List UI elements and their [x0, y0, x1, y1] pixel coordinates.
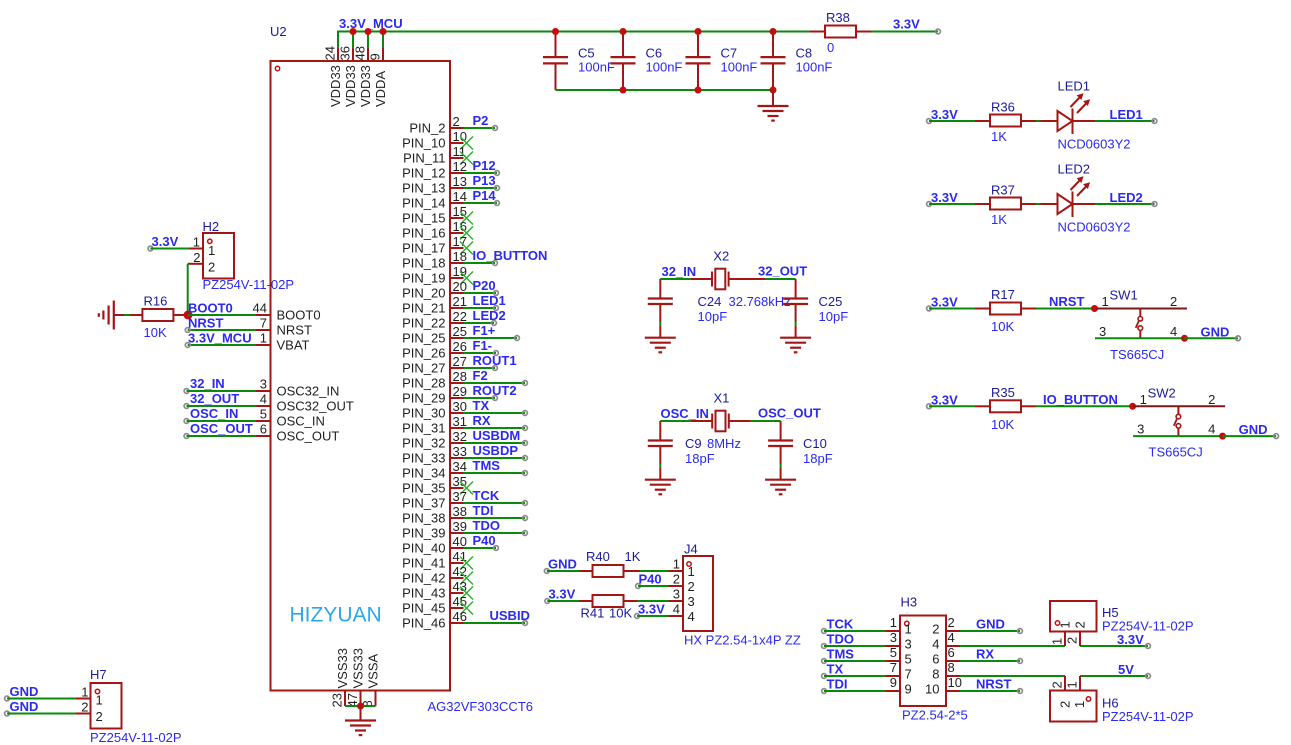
svg-text:PIN_22: PIN_22 [402, 316, 445, 331]
U2 top pin 9 VDDA [368, 31, 389, 108]
net label LED2 at U2 pin 22 [473, 308, 506, 323]
svg-text:1K: 1K [625, 549, 641, 564]
J4 pin 4 [669, 602, 684, 617]
U2 right pin 46 PIN_46 [402, 609, 467, 631]
svg-text:2: 2 [932, 622, 939, 637]
designator J4 [684, 542, 698, 557]
svg-text:VDD33: VDD33 [343, 65, 358, 107]
svg-text:TCK: TCK [473, 488, 500, 503]
wire GND to H7 pin 2 [5, 711, 76, 716]
svg-text:6: 6 [260, 422, 267, 437]
LED LED2 NCD0603Y2 [1058, 176, 1096, 217]
wire GND to H7 pin 1 [5, 696, 76, 701]
value 8MHz for X1 [707, 436, 741, 451]
svg-text:18pF: 18pF [685, 451, 715, 466]
no-connect X at U2 pin 42 [460, 572, 473, 585]
svg-text:22: 22 [453, 309, 467, 324]
svg-text:1: 1 [260, 331, 267, 346]
U2 bottom pin 23 VSS33 [330, 648, 351, 707]
svg-text:R35: R35 [991, 385, 1015, 400]
svg-text:PZ254V-11-02P: PZ254V-11-02P [203, 277, 295, 292]
svg-text:10: 10 [925, 682, 939, 697]
H5 pin 1 [1050, 632, 1066, 647]
junction dots top rail at capacitors [552, 28, 777, 35]
svg-text:32: 32 [453, 429, 467, 444]
svg-text:PIN_45: PIN_45 [402, 601, 445, 616]
net label IO_BUTTON [1043, 392, 1118, 407]
wire TMS to H3 pin 5 [822, 659, 886, 664]
svg-text:PZ2.54-2*5: PZ2.54-2*5 [902, 708, 968, 723]
net label P2 at U2 pin 2 [473, 113, 489, 128]
net label TCK [827, 617, 854, 632]
wire USBDM from U2 pin 32 [464, 441, 528, 446]
svg-text:2: 2 [208, 260, 215, 275]
svg-text:TS665CJ: TS665CJ [1110, 347, 1164, 362]
svg-text:38: 38 [453, 504, 467, 519]
wire 3.3V to J4 pin 4 [635, 614, 669, 619]
svg-text:HX PZ2.54-1x4P ZZ: HX PZ2.54-1x4P ZZ [684, 633, 801, 648]
svg-text:13: 13 [453, 174, 467, 189]
svg-text:10pF: 10pF [819, 309, 849, 324]
svg-text:PIN_33: PIN_33 [402, 451, 445, 466]
J4 pin 1 [669, 557, 684, 572]
svg-text:TDI: TDI [827, 677, 848, 692]
svg-text:5: 5 [890, 645, 897, 660]
svg-text:2: 2 [1170, 294, 1177, 309]
svg-text:2: 2 [1208, 392, 1215, 407]
wire OSC_OUT to U2 pin 6 [184, 434, 256, 439]
svg-text:LED1: LED1 [473, 293, 506, 308]
svg-text:2: 2 [1050, 681, 1065, 688]
value PZ2.54-2*5 [902, 708, 968, 723]
U2 right pin 42 PIN_42 [402, 564, 467, 586]
svg-text:NRST: NRST [277, 323, 312, 338]
capacitor C5 100nF [543, 32, 615, 91]
svg-text:30: 30 [453, 399, 467, 414]
U2 left pin 4 OSC32_OUT [256, 392, 354, 414]
wire H3 pin 8 to H6 pin 2 [960, 675, 1065, 677]
H2 pin 1 [190, 235, 204, 250]
svg-text:32_OUT: 32_OUT [190, 391, 239, 406]
svg-text:14: 14 [453, 189, 467, 204]
svg-text:PIN_46: PIN_46 [402, 616, 445, 631]
svg-text:ROUT1: ROUT1 [473, 353, 517, 368]
svg-text:USBDM: USBDM [473, 428, 521, 443]
svg-text:IO_BUTTON: IO_BUTTON [473, 248, 548, 263]
wire 3.3V to R17 [929, 308, 975, 310]
junction at SW2 pin 1 [1129, 403, 1136, 410]
value PZ254V-11-02P for H7 [90, 730, 182, 745]
U2 left pin 44 BOOT0 [253, 301, 321, 323]
svg-text:P40: P40 [473, 533, 496, 548]
U2 right pin 29 PIN_29 [402, 384, 467, 406]
capacitor C9 18pF [648, 421, 715, 480]
svg-text:GND: GND [10, 699, 39, 714]
net label 3.3V for R37 [927, 190, 958, 206]
net label TX [827, 662, 844, 677]
net label 32_IN [662, 264, 697, 279]
net label F1- at U2 pin 26 [473, 338, 493, 353]
wire R40 to J4 pin 1 [640, 570, 669, 572]
net label TDO at U2 pin 39 [473, 518, 500, 533]
H3 pin 6 [932, 645, 960, 667]
designator LED1 [1058, 79, 1091, 94]
no-connect X at U2 pin 45 [460, 602, 473, 615]
U2 left pin 6 OSC_OUT [256, 422, 339, 444]
svg-text:32_IN: 32_IN [190, 376, 225, 391]
svg-text:NCD0603Y2: NCD0603Y2 [1058, 137, 1131, 152]
svg-text:2: 2 [1058, 701, 1073, 708]
svg-text:31: 31 [453, 414, 467, 429]
svg-text:1: 1 [1050, 638, 1065, 645]
wire P12 from U2 pin 12 [464, 171, 500, 176]
capacitor C24 10pF [648, 279, 727, 338]
svg-text:7: 7 [905, 667, 912, 682]
value HX PZ2.54-1x4P ZZ [684, 633, 801, 648]
svg-text:3.3V: 3.3V [931, 190, 958, 205]
svg-text:PIN_40: PIN_40 [402, 541, 445, 556]
svg-text:R17: R17 [991, 287, 1015, 302]
header H3 PZ2.54-2*5 body [900, 616, 946, 707]
ground below C9 [645, 480, 676, 495]
net label 5V [1118, 662, 1134, 677]
svg-text:OSC_OUT: OSC_OUT [758, 406, 821, 421]
net label GND at R40 [544, 557, 576, 574]
svg-text:2: 2 [688, 579, 695, 594]
svg-text:23: 23 [330, 693, 345, 707]
svg-text:H3: H3 [901, 595, 918, 610]
wire NRST from H3 pin 10 [960, 689, 1022, 694]
svg-text:VBAT: VBAT [277, 338, 310, 353]
svg-text:3.3V: 3.3V [931, 392, 958, 407]
svg-text:C7: C7 [721, 46, 738, 61]
wire TDI from U2 pin 38 [464, 516, 528, 521]
svg-text:IO_BUTTON: IO_BUTTON [1043, 392, 1118, 407]
svg-text:9: 9 [905, 682, 912, 697]
wire GND to R40 [547, 570, 579, 572]
svg-text:VSS33: VSS33 [351, 648, 366, 688]
svg-text:PIN_42: PIN_42 [402, 571, 445, 586]
net label USBID at U2 pin 46 [490, 608, 530, 623]
U2 left pin 7 NRST [256, 316, 312, 338]
svg-text:VDD33: VDD33 [358, 65, 373, 107]
svg-text:F1-: F1- [473, 338, 493, 353]
svg-text:PIN_15: PIN_15 [402, 211, 445, 226]
designator H2 [203, 219, 220, 234]
svg-text:100nF: 100nF [578, 60, 615, 75]
crystal X1 [712, 411, 729, 432]
svg-text:SW2: SW2 [1148, 385, 1176, 400]
svg-text:C9: C9 [685, 436, 702, 451]
svg-text:2: 2 [673, 572, 680, 587]
H3 pin 4 [932, 630, 960, 652]
wire F1+ from U2 pin 25 [464, 336, 520, 341]
H2 pin 2 [188, 250, 203, 265]
svg-text:R16: R16 [144, 294, 168, 309]
svg-text:39: 39 [453, 519, 467, 534]
svg-text:27: 27 [453, 354, 467, 369]
net label P12 at U2 pin 12 [473, 158, 496, 173]
svg-text:4: 4 [1170, 324, 1177, 339]
svg-text:18: 18 [453, 249, 467, 264]
svg-text:HIZYUAN: HIZYUAN [290, 604, 382, 627]
junction dots on ground bus [620, 87, 777, 94]
svg-text:3: 3 [688, 594, 695, 609]
wire TCK to H3 pin 1 [822, 629, 886, 634]
MCU U2 body [271, 61, 451, 691]
net label 32_IN at U2 pin 3 [190, 376, 225, 391]
wire 32_IN [660, 278, 712, 280]
U2 right pin 28 PIN_28 [402, 369, 467, 391]
svg-text:PZ254V-11-02P: PZ254V-11-02P [1102, 709, 1194, 724]
net label P13 at U2 pin 13 [473, 173, 496, 188]
U2 right pin 45 PIN_45 [402, 594, 467, 616]
net label TDI [827, 677, 848, 692]
value NCD0603Y2 for LED1 [1058, 137, 1131, 152]
svg-text:5: 5 [260, 407, 267, 422]
designator H6 [1102, 696, 1119, 711]
net label NRST [1049, 294, 1084, 309]
svg-text:1: 1 [1065, 681, 1080, 688]
wire LED2 net [1095, 202, 1157, 207]
value PZ254V-11-02P for H5 [1102, 619, 1194, 634]
svg-text:8: 8 [932, 667, 939, 682]
header H6 PZ254V-11-02P body [1050, 691, 1097, 722]
svg-text:PIN_17: PIN_17 [402, 241, 445, 256]
resistor R17 10K [975, 287, 1036, 334]
resistor R36 1K [975, 100, 1036, 145]
svg-text:21: 21 [453, 294, 467, 309]
wire USBID from U2 pin 46 [464, 621, 528, 626]
net label TX at U2 pin 30 [473, 398, 490, 413]
net label OSC_OUT [758, 406, 821, 421]
svg-text:PIN_39: PIN_39 [402, 526, 445, 541]
svg-text:8: 8 [948, 660, 955, 675]
value PZ254V-11-02P for H6 [1102, 709, 1194, 724]
svg-text:VDD33: VDD33 [328, 65, 343, 107]
no-connect X at U2 pin 16 [460, 227, 473, 240]
junction at SW1 pin 1 [1091, 305, 1098, 312]
svg-text:2: 2 [1073, 621, 1088, 628]
wire 3.3V to H2 pin 1 [148, 246, 190, 251]
designator U2 [270, 24, 287, 39]
net label 32_OUT at U2 pin 4 [190, 391, 239, 406]
wire OSC_OUT [729, 420, 781, 422]
value TS665CJ for SW2 [1149, 445, 1203, 460]
svg-text:PIN_16: PIN_16 [402, 226, 445, 241]
svg-text:1K: 1K [991, 212, 1007, 227]
svg-text:R40: R40 [586, 549, 610, 564]
net label 3.3V_MCU at U2 pin 1 [188, 331, 252, 346]
junction at U2 ground node [357, 703, 364, 710]
svg-text:1: 1 [1140, 392, 1147, 407]
svg-text:GND: GND [1201, 324, 1230, 339]
net label LED2 [1110, 190, 1143, 205]
svg-text:10K: 10K [991, 417, 1014, 432]
wire LED1 net [1095, 119, 1157, 124]
H3 pin 9 [886, 675, 912, 697]
U2 bottom pin 8 VSSA [360, 653, 381, 707]
U2 right pin 35 PIN_35 [402, 474, 467, 496]
svg-text:LED2: LED2 [1110, 190, 1143, 205]
net label GND at SW2 [1239, 422, 1268, 437]
svg-text:3.3V: 3.3V [638, 602, 665, 617]
net label F2 at U2 pin 28 [473, 368, 488, 383]
H6 pin 2 [1050, 676, 1066, 691]
net label TDI at U2 pin 38 [473, 503, 494, 518]
U2 left pin 5 OSC_IN [256, 407, 325, 429]
svg-text:SW1: SW1 [1110, 288, 1138, 303]
svg-text:33: 33 [453, 444, 467, 459]
svg-text:H2: H2 [203, 219, 220, 234]
svg-text:OSC_IN: OSC_IN [190, 406, 238, 421]
svg-text:40: 40 [453, 534, 467, 549]
J4 pin 2 [669, 572, 684, 587]
resistor R38 0 ohm [810, 10, 871, 55]
svg-text:2: 2 [453, 114, 460, 129]
header H7 PZ254V-11-02P body [91, 683, 122, 729]
U2 right pin 33 PIN_33 [402, 444, 467, 466]
U2 left pin 3 OSC32_IN [256, 377, 339, 399]
svg-text:C25: C25 [819, 294, 843, 309]
net label GND at SW1 [1201, 324, 1230, 339]
resistor R35 10K [975, 385, 1036, 432]
wire P40 to J4 pin 2 [636, 584, 669, 589]
svg-text:32.768kHz: 32.768kHz [729, 294, 791, 309]
wire TDI to H3 pin 9 [822, 689, 886, 694]
resistor R16 10K [142, 294, 188, 341]
wire R17 to switch SW1 [1036, 308, 1095, 310]
capacitor C7 100nF [686, 32, 758, 91]
value 32.768kHz for X2 [729, 294, 791, 309]
svg-text:1: 1 [208, 243, 215, 258]
svg-text:TS665CJ: TS665CJ [1149, 445, 1203, 460]
junction BOOT0 node [184, 311, 193, 320]
H3 pin 2 [932, 615, 960, 637]
switch SW2 TS665CJ [1134, 392, 1226, 437]
net label ROUT2 at U2 pin 29 [473, 383, 517, 398]
svg-text:C5: C5 [578, 46, 595, 61]
svg-text:10K: 10K [609, 606, 632, 621]
net label P40 at U2 pin 40 [473, 533, 496, 548]
svg-text:3: 3 [260, 377, 267, 392]
U2 right pin 39 PIN_39 [402, 519, 467, 541]
net label OSC_IN at U2 pin 5 [190, 406, 238, 421]
wire TX from U2 pin 30 [464, 411, 528, 416]
svg-text:LED1: LED1 [1058, 79, 1091, 94]
capacitor C10 18pF [768, 421, 833, 480]
svg-text:1: 1 [1072, 701, 1087, 708]
svg-text:LED2: LED2 [1058, 162, 1091, 177]
svg-text:PZ254V-11-02P: PZ254V-11-02P [1102, 619, 1194, 634]
svg-text:1: 1 [890, 615, 897, 630]
svg-text:PIN_18: PIN_18 [402, 256, 445, 271]
svg-text:PIN_2: PIN_2 [409, 121, 445, 136]
wire joining U2 ground pins [345, 705, 376, 707]
wire P2 from U2 pin 2 [464, 126, 498, 131]
svg-text:11: 11 [453, 144, 467, 159]
svg-text:2: 2 [948, 615, 955, 630]
svg-text:LED1: LED1 [1110, 107, 1143, 122]
svg-text:VSSA: VSSA [366, 653, 381, 688]
wire OSC_IN [660, 420, 712, 422]
svg-text:PIN_19: PIN_19 [402, 271, 445, 286]
H3 pin 5 [886, 645, 912, 667]
svg-text:OSC32_IN: OSC32_IN [277, 384, 340, 399]
svg-text:F1+: F1+ [473, 323, 496, 338]
svg-text:12: 12 [453, 159, 467, 174]
wire 3.3V to R35 [929, 405, 975, 407]
svg-text:TDO: TDO [473, 518, 500, 533]
U2 right pin 27 PIN_27 [402, 354, 467, 376]
net label OSC_OUT at U2 pin 6 [190, 421, 253, 436]
svg-text:OSC_OUT: OSC_OUT [277, 429, 340, 444]
wire R37 to LED2 [1036, 203, 1058, 205]
svg-text:2: 2 [193, 250, 200, 265]
no-connect X at U2 pin 11 [460, 152, 473, 165]
svg-text:3: 3 [890, 630, 897, 645]
svg-text:1: 1 [193, 235, 200, 250]
wire 3.3V to R41 [547, 600, 579, 602]
ground below C10 [765, 480, 796, 495]
svg-text:BOOT0: BOOT0 [277, 308, 321, 323]
net label 32_OUT [758, 264, 807, 279]
svg-text:TMS: TMS [473, 458, 501, 473]
svg-text:3.3V: 3.3V [931, 107, 958, 122]
no-connect X at U2 pin 10 [460, 137, 473, 150]
wire R41 to J4 pin 3 [637, 600, 669, 602]
no-connect X at U2 pin 41 [460, 557, 473, 570]
label HIZYUAN [290, 604, 382, 627]
svg-text:C24: C24 [698, 294, 722, 309]
wire P40 from U2 pin 40 [464, 546, 499, 551]
U2 right pin 34 PIN_34 [402, 459, 467, 481]
net label NRST at H3 pin 10 [976, 677, 1011, 692]
svg-text:TX: TX [473, 398, 490, 413]
svg-text:ROUT2: ROUT2 [473, 383, 517, 398]
wire RX from U2 pin 31 [464, 426, 528, 431]
svg-text:P14: P14 [473, 188, 497, 203]
svg-text:GND: GND [548, 557, 577, 572]
wire P14 from U2 pin 14 [464, 201, 500, 206]
wire ground to R16 [114, 314, 143, 316]
wire 3.3V_MCU top rail [337, 31, 810, 33]
svg-text:P13: P13 [473, 173, 496, 188]
U2 right pin 40 PIN_40 [402, 534, 467, 556]
H3 pin 1 [886, 615, 912, 637]
svg-text:RX: RX [976, 647, 994, 662]
wire 32_OUT to U2 pin 4 [184, 404, 256, 409]
wire F1- from U2 pin 26 [464, 351, 499, 356]
U2 right pin 2 PIN_2 [409, 114, 463, 136]
svg-text:10K: 10K [991, 319, 1014, 334]
net label P40 [639, 572, 662, 587]
wire TMS from U2 pin 34 [464, 471, 528, 476]
svg-text:PIN_13: PIN_13 [402, 181, 445, 196]
svg-text:TDO: TDO [827, 632, 854, 647]
svg-text:RX: RX [473, 413, 491, 428]
svg-text:4: 4 [932, 637, 939, 652]
svg-text:3.3V: 3.3V [893, 17, 920, 32]
ground below C25 [780, 338, 811, 353]
svg-text:R41: R41 [581, 606, 605, 621]
wire F2 from U2 pin 28 [464, 381, 528, 386]
wire OSC_IN to U2 pin 5 [184, 419, 256, 424]
designator SW2 [1148, 385, 1176, 400]
H3 pin 10 [925, 675, 962, 697]
wire to 3.3V right of R38 [871, 29, 940, 34]
resistor R40 1K [579, 549, 641, 577]
